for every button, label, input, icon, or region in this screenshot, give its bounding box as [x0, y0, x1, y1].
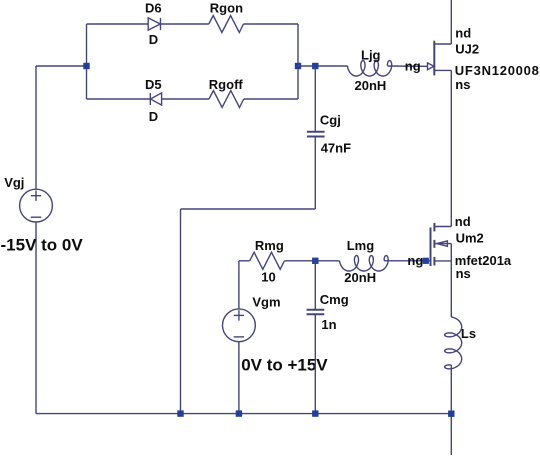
- voltage source Vgm: [223, 309, 256, 414]
- resistor Rmg: [250, 252, 285, 269]
- Um2 body stub with arrow: [434, 241, 451, 246]
- gate arrow of JFET UJ2: [428, 63, 434, 70]
- wire merge node to gate line: [298, 65, 348, 67]
- svg-text:D6: D6: [145, 0, 162, 15]
- svg-text:Lmg: Lmg: [347, 238, 375, 253]
- UJ2 drain stub: [434, 43, 451, 45]
- svg-text:UF3N120008: UF3N120008: [455, 63, 540, 78]
- inductor Ljg: [348, 61, 392, 76]
- node junction Cmg tap: [312, 258, 318, 264]
- svg-text:20nH: 20nH: [344, 270, 376, 285]
- Um2 body-source tie: [450, 244, 452, 261]
- wire corner to Rmg: [239, 260, 250, 262]
- svg-text:D5: D5: [145, 77, 162, 92]
- resistor Rgoff: [209, 91, 244, 108]
- wire node to left rail: [36, 65, 87, 67]
- node junction branches merge: [295, 63, 301, 69]
- svg-text:10: 10: [261, 269, 275, 284]
- inductor Ls: [445, 317, 462, 369]
- wire Lmg to Um2 gate: [384, 260, 430, 262]
- Um2 source stub: [434, 260, 451, 262]
- wire Rmg to junction: [284, 260, 339, 262]
- inductor Lmg: [340, 256, 389, 271]
- svg-text:UJ2: UJ2: [455, 41, 479, 56]
- svg-text:-15V to 0V: -15V to 0V: [1, 235, 84, 254]
- voltage source Vgj: [20, 66, 53, 414]
- svg-text:D: D: [149, 109, 158, 124]
- svg-text:Rgon: Rgon: [210, 0, 243, 15]
- svg-text:Um2: Um2: [456, 231, 484, 246]
- svg-text:D: D: [149, 32, 158, 47]
- UJ2 drain wire to top edge: [450, 0, 452, 44]
- wire top branch left (node to D6 anode): [87, 23, 149, 25]
- wire bottom branch (to D5 cathode): [87, 98, 151, 100]
- svg-text:47nF: 47nF: [321, 141, 351, 156]
- wire left vertical between branches: [86, 24, 88, 99]
- svg-text:Ls: Ls: [461, 326, 476, 341]
- svg-text:ng: ng: [407, 253, 423, 268]
- wire Rmg left corner vertical to Vgm: [238, 261, 240, 309]
- node junction rail-Cmg: [312, 410, 318, 416]
- Um2 channel segments: [433, 223, 435, 266]
- svg-text:Ljg: Ljg: [361, 47, 381, 62]
- svg-text:ns: ns: [455, 77, 470, 92]
- node junction rail-Vgm: [236, 410, 242, 416]
- svg-text:nd: nd: [455, 26, 471, 41]
- node junction rail-jog: [177, 410, 183, 416]
- wire right vertical joining branches: [297, 24, 299, 99]
- svg-text:Rmg: Rmg: [255, 238, 284, 253]
- svg-text:Rgoff: Rgoff: [209, 77, 244, 92]
- MOSFET Um2 gate bar: [430, 228, 432, 267]
- svg-text:Vgj: Vgj: [4, 175, 24, 190]
- capacitor Cmg: [307, 261, 325, 414]
- svg-text:ns: ns: [456, 266, 471, 281]
- wire Ls to bottom junction: [450, 365, 452, 414]
- wire Ljg to gate arrow: [388, 65, 428, 67]
- node junction Cgj tap: [312, 63, 318, 69]
- wire Rgoff to right corner: [244, 98, 298, 100]
- svg-text:20nH: 20nH: [355, 78, 387, 93]
- net square ng: [423, 258, 429, 264]
- wire Um2 source down to Ls: [450, 261, 452, 317]
- Um2 drain stub: [434, 226, 451, 228]
- wire stub below bottom junction: [450, 414, 452, 455]
- capacitor Cgj: [307, 66, 325, 209]
- wire Rgon to right corner: [244, 23, 299, 25]
- wire jog down to ground rail: [180, 209, 182, 414]
- JFET U J2 channel bar: [433, 41, 435, 76]
- ground rail (bottom): [36, 413, 451, 415]
- wire Cgj bottom horizontal jog: [181, 208, 316, 210]
- svg-text:Cgj: Cgj: [320, 112, 341, 127]
- wire UJ2 source down to Um2 drain: [450, 70, 452, 226]
- svg-text:Vgm: Vgm: [252, 295, 280, 310]
- resistor Rgon: [209, 16, 244, 33]
- UJ2 source stub: [434, 69, 451, 71]
- svg-text:nd: nd: [455, 214, 471, 229]
- svg-text:ng: ng: [405, 59, 421, 74]
- svg-text:1n: 1n: [321, 317, 336, 332]
- svg-text:Cmg: Cmg: [320, 292, 349, 307]
- diode D6: [148, 18, 209, 30]
- node junction left: [83, 63, 89, 69]
- diode D5: [150, 93, 209, 105]
- node junction rail-Ls: [448, 411, 454, 417]
